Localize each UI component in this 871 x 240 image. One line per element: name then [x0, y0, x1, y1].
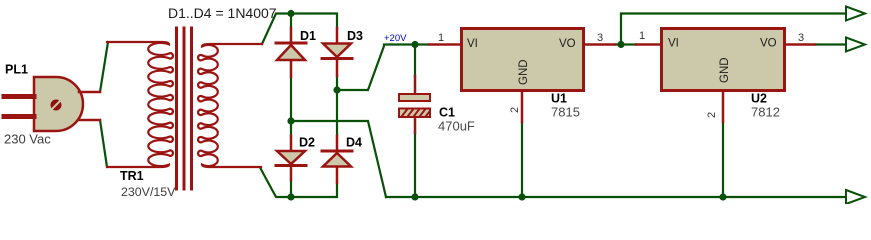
- svg-text:VO: VO: [559, 38, 576, 50]
- svg-text:7815: 7815: [551, 105, 580, 120]
- node junction dot AC2/D2: [287, 193, 294, 200]
- wire U2 VO to +12V arrow: [815, 43, 846, 45]
- regulator U2 pin 3 (VO): [786, 43, 815, 46]
- svg-text:230V/15V: 230V/15V: [121, 185, 176, 199]
- diode D4 cathode bar: [322, 150, 352, 153]
- diode D1 triangle: [277, 45, 305, 60]
- svg-text:3: 3: [798, 32, 804, 44]
- wire PL1 pin2 to TR1 primary bottom: [100, 120, 107, 167]
- wire D3 cathode to D4 cathode (plus node): [336, 76, 338, 136]
- svg-text:PL1: PL1: [5, 63, 28, 77]
- svg-text:470uF: 470uF: [438, 119, 475, 134]
- diode D1 cathode bar: [276, 42, 306, 45]
- svg-text:D2: D2: [299, 136, 315, 150]
- capacitor C1 top plate: [399, 94, 430, 101]
- diode D3 triangle: [323, 44, 351, 58]
- diode D1 pins: [290, 28, 293, 77]
- wire TR1 secondary bottom to bridge AC2 rail: [260, 168, 337, 198]
- node junction dot AC1/D1: [287, 10, 294, 17]
- node junction dot U1 GND/ground: [518, 193, 525, 200]
- connector PL1 prong pin 1: [4, 94, 34, 99]
- wire D2 cathode to AC2 rail: [290, 180, 292, 197]
- regulator U1 pin 3 (VO): [585, 43, 615, 46]
- wire C1 top branch: [414, 45, 416, 77]
- diode D2 triangle: [277, 151, 305, 164]
- svg-text:GND: GND: [518, 59, 530, 85]
- svg-text:GND: GND: [719, 57, 731, 83]
- wire PL1 pin1 to TR1 primary top: [100, 42, 108, 92]
- svg-text:U1: U1: [551, 92, 567, 106]
- diode D2 pins: [290, 136, 293, 180]
- svg-text:C1: C1: [439, 106, 455, 120]
- transformer TR1 core: [177, 28, 192, 189]
- output arrow +12V: [846, 38, 865, 52]
- diode D3 cathode bar: [322, 57, 352, 60]
- wire bridge AC1 to D1 cathode: [290, 14, 292, 29]
- svg-text:U2: U2: [751, 92, 767, 106]
- connector PL1 keying symbol: [51, 100, 62, 111]
- regulator U1 pin 1 (VI): [429, 43, 460, 46]
- svg-text:TR1: TR1: [120, 169, 144, 183]
- diode D3 pins: [336, 28, 339, 76]
- regulator U2 box: [662, 29, 785, 91]
- svg-text:1: 1: [639, 30, 645, 42]
- wire U1 GND to ground rail: [521, 122, 523, 197]
- wire plus node to +20V rail: [337, 45, 429, 91]
- regulator U1 pin 2 (GND): [521, 92, 524, 122]
- regulator U2 pin 1 (VI): [636, 43, 660, 46]
- output arrow +15V: [846, 7, 865, 21]
- capacitor C1 pins: [414, 76, 417, 133]
- wire ground rail: [386, 196, 845, 198]
- connector PL1 prong pin 2: [4, 114, 34, 119]
- diode D4 pins: [336, 136, 339, 183]
- node junction dot minus output: [287, 117, 294, 124]
- node junction dot U2 GND/ground: [719, 193, 726, 200]
- regulator U1 box: [462, 29, 584, 91]
- node junction dot plus output: [333, 86, 340, 93]
- node junction dot C1/ground: [411, 193, 418, 200]
- svg-text:1: 1: [438, 32, 444, 44]
- capacitor C1 bottom plate (hatched): [399, 109, 430, 118]
- svg-text:VI: VI: [668, 38, 679, 50]
- connector PL1 right stub bottom: [79, 119, 100, 122]
- connector PL1 right stub top: [79, 91, 100, 94]
- wire TR1 secondary top to bridge AC1 rail: [262, 14, 337, 45]
- svg-text:VI: VI: [467, 38, 478, 50]
- diode D2 cathode bar: [276, 164, 306, 167]
- transformer TR1 primary winding: [107, 42, 173, 167]
- wire U1 output branch up to +15V line: [621, 14, 846, 45]
- output arrow ground: [846, 190, 865, 204]
- svg-text:3: 3: [597, 32, 603, 44]
- wire U2 GND to ground rail: [722, 122, 724, 197]
- regulator U2 pin 2 (GND): [722, 92, 725, 122]
- svg-text:2: 2: [706, 112, 718, 118]
- svg-text:VO: VO: [760, 38, 777, 50]
- svg-text:D4: D4: [346, 136, 362, 150]
- wire D1 anode to D2 anode (minus node): [290, 77, 292, 136]
- svg-text:7812: 7812: [751, 105, 780, 120]
- transformer TR1 secondary winding: [198, 44, 262, 167]
- svg-text:2: 2: [509, 107, 521, 113]
- svg-text:D1..D4 = 1N4007: D1..D4 = 1N4007: [168, 5, 277, 21]
- wire C1 bottom to ground rail: [414, 133, 416, 197]
- svg-text:D3: D3: [347, 29, 363, 43]
- wire U1 VO to U2 VI: [615, 43, 636, 45]
- svg-text:+20V: +20V: [384, 33, 407, 44]
- diode D4 triangle: [323, 153, 351, 167]
- node junction dot +20V/C1: [411, 41, 418, 48]
- connector PL1 body: [34, 77, 83, 131]
- node junction dot U1 output branch: [617, 41, 624, 48]
- svg-text:230 Vac: 230 Vac: [4, 132, 51, 147]
- svg-text:D1: D1: [300, 29, 316, 43]
- wire minus node to ground rail: [291, 121, 386, 197]
